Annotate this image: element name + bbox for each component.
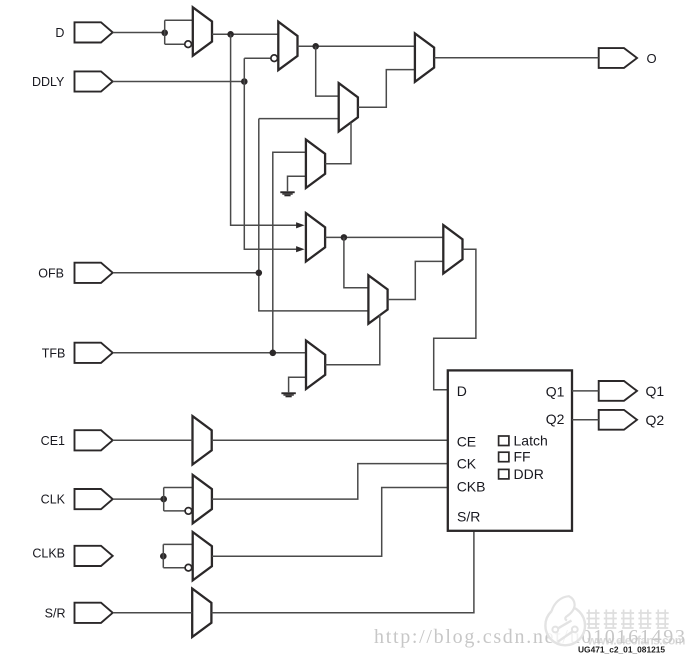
checkbox DDR [499, 466, 544, 482]
wire CLKB jog top to mux MCLKB [163, 543, 192, 545]
wire D pin to node [113, 32, 165, 34]
arrowhead M6 upper input [296, 222, 305, 228]
input pin TFB [42, 343, 113, 363]
wire CE1 pin to buffer [113, 439, 193, 441]
figure id UG471_c2_01_081215 [578, 645, 665, 655]
buffer BSR (S/R) [192, 589, 211, 637]
node CLKB dot [160, 553, 167, 560]
input pin CLK [41, 489, 113, 509]
wire CLKB jog bottom to MCLKB bubble [163, 567, 185, 569]
svg-text:D: D [55, 26, 64, 40]
inverter bubble on mux M2 lower input [271, 55, 278, 62]
input pin CLKB [32, 546, 112, 566]
ground symbol at M9 [281, 392, 295, 397]
wire riser from DDLY node to mux M6 lower input [244, 58, 297, 249]
wire mux M3 lower input from OFB riser [259, 118, 339, 120]
svg-text:D: D [457, 383, 467, 399]
wire MCLKB output to flip-flop CKB [212, 488, 448, 557]
svg-text:CLKB: CLKB [32, 547, 65, 561]
output pin Q1 [599, 381, 665, 401]
arrowhead M6 lower input [296, 246, 305, 252]
mux M4 (output mux) [415, 33, 434, 81]
wire TFB pin to mux M9 [113, 352, 306, 354]
wire flip-flop Q2 to pin [572, 419, 599, 421]
label CK (block) [457, 455, 477, 471]
wire D jog bottom to M1 bubble [165, 43, 185, 45]
wire CE1 buffer to flip-flop CE [212, 439, 448, 441]
flip-flop latch block U1 [448, 370, 572, 530]
node TFB dot [270, 350, 277, 357]
wire M5 ground stub [288, 176, 306, 191]
mux M2 [278, 22, 297, 70]
svg-text:CE: CE [457, 434, 476, 450]
node M1 output dot [227, 31, 234, 38]
node OFB dot [255, 270, 262, 277]
label D (block) [457, 383, 467, 399]
input pin D [55, 22, 112, 42]
svg-text:UG471_c2_01_081215: UG471_c2_01_081215 [578, 645, 665, 655]
wire flip-flop Q1 to pin [572, 390, 599, 392]
wire D jog vertical [164, 20, 166, 44]
wire OFB riser (node to M3 lower / down to mux M7 lower input) [259, 119, 369, 311]
node CLK dot [160, 496, 167, 503]
buffer BCE1 (CE1) [193, 416, 212, 464]
svg-text:S/R: S/R [457, 509, 480, 525]
mux M1 (D select) [193, 7, 212, 55]
inverter bubble on mux MCLKB lower input [185, 564, 192, 571]
output pin O [599, 48, 657, 68]
inverter bubble on mux M1 lower input [185, 41, 192, 48]
watermark elecfans logo mark [545, 596, 585, 645]
input pin CE1 [41, 430, 113, 450]
watermark elecfans url [587, 634, 685, 648]
label CE (block) [457, 434, 476, 450]
watermark chinese characters [587, 610, 669, 629]
node D fanout dot [161, 30, 168, 37]
wire M6 output to mux M8 upper input [325, 236, 443, 238]
svg-text:Q1: Q1 [646, 383, 665, 399]
wire M5 output to M3 select [325, 123, 351, 164]
svg-text:DDLY: DDLY [32, 75, 65, 89]
wire CLK jog bottom to MCLK bubble [164, 510, 185, 512]
wire M1 output to mux M2 [212, 33, 278, 35]
label Q2 (block) [546, 411, 565, 427]
wire M4 output to O pin [434, 57, 599, 59]
svg-text:DDR: DDR [514, 466, 544, 482]
watermark csdn url text [374, 626, 687, 648]
inverter bubble on mux MCLK lower input [185, 508, 192, 515]
wire OFB pin to node [113, 272, 259, 274]
svg-text:TFB: TFB [42, 346, 66, 360]
mux M3 [339, 83, 358, 131]
wire D jog top to mux M1 [165, 19, 193, 21]
wire MCLK output to flip-flop CK [212, 464, 448, 500]
node M2 output dot [312, 43, 319, 50]
wire CLK jog top to mux MCLK [164, 487, 193, 489]
svg-text:Q1: Q1 [546, 383, 565, 399]
label Q1 (block) [546, 383, 565, 399]
svg-text:FF: FF [514, 449, 531, 465]
label CKB (block) [457, 478, 486, 494]
input pin S/R [45, 603, 113, 623]
mux M8 [443, 225, 462, 273]
wire CLKB jog vertical [162, 544, 164, 567]
wire M6 node down to mux M7 upper input [344, 237, 369, 287]
svg-text:CE1: CE1 [41, 434, 65, 448]
svg-text:CKB: CKB [457, 478, 486, 494]
input pin OFB [38, 263, 112, 283]
ground symbol at M5 [280, 191, 294, 196]
mux MCLKB [193, 532, 212, 580]
wire S/R buffer to flip-flop S/R input [211, 531, 474, 613]
wire M9 output to M7 select [325, 315, 380, 365]
wire M7 output to mux M8 lower input [388, 261, 444, 299]
mux M5 [306, 140, 325, 188]
wire M2 output to mux M4 [298, 45, 415, 47]
svg-text:Latch: Latch [514, 433, 548, 449]
svg-text:CK: CK [457, 455, 477, 471]
label S/R (block) [457, 509, 480, 525]
wire DDLY pin to node [113, 81, 245, 83]
mux M7 [368, 275, 387, 323]
wire S/R pin to buffer [113, 612, 192, 614]
checkbox FF [499, 449, 531, 465]
wire M8 output to flip-flop D input [434, 249, 476, 389]
node M6 output dot [341, 234, 348, 241]
input pin DDLY [32, 71, 113, 91]
wire CLK pin to node [113, 498, 164, 500]
output pin Q2 [599, 410, 665, 430]
svg-text:S/R: S/R [45, 606, 66, 620]
mux M6 (feedback mux) [306, 213, 325, 261]
wire M2 bubble jog [244, 57, 270, 59]
wire CLK jog vertical [163, 488, 165, 511]
wire M3 output to mux M4 lower input [358, 70, 415, 108]
wire riser from M1 node to mux M6 upper input [231, 34, 298, 225]
svg-text:OFB: OFB [38, 266, 64, 280]
svg-text:CLK: CLK [41, 493, 66, 507]
node DDLY dot [241, 78, 248, 85]
wire M2 node down to mux M3 upper input [316, 46, 339, 96]
svg-text:O: O [647, 51, 657, 66]
mux MCLK [193, 475, 212, 523]
svg-text:Q2: Q2 [646, 412, 665, 428]
mux M9 [306, 341, 325, 389]
checkbox Latch [499, 433, 548, 449]
wire TFB riser to mux M5 upper input [273, 152, 306, 353]
svg-text:Q2: Q2 [546, 411, 565, 427]
wire M9 ground stub [289, 377, 306, 392]
